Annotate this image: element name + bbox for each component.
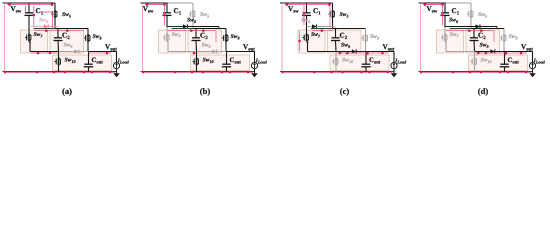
svg-text:Sw7: Sw7 (172, 32, 182, 39)
svg-text:Sw9: Sw9 (64, 43, 73, 50)
svg-text:Sw9: Sw9 (341, 43, 350, 50)
svg-text:ILoad: ILoad (533, 58, 546, 65)
svg-text:(c): (c) (340, 86, 350, 96)
svg-text:Sw10: Sw10 (65, 58, 76, 65)
svg-text:ILoad: ILoad (394, 58, 407, 65)
svg-text:Sw8: Sw8 (231, 34, 240, 41)
svg-text:Sw10: Sw10 (203, 58, 214, 65)
svg-text:(a): (a) (62, 86, 72, 96)
svg-text:Sw10: Sw10 (342, 58, 353, 65)
svg-text:Sw6: Sw6 (39, 18, 49, 25)
svg-text:(b): (b) (200, 86, 211, 96)
svg-text:Sw10: Sw10 (481, 58, 492, 65)
svg-text:Sw5: Sw5 (62, 12, 71, 19)
svg-text:Sw8: Sw8 (509, 34, 518, 41)
svg-text:Sw9: Sw9 (480, 43, 489, 50)
svg-text:Sw7: Sw7 (450, 32, 460, 39)
svg-text:Sw5: Sw5 (200, 12, 209, 19)
svg-text:Sw7: Sw7 (311, 32, 321, 39)
svg-text:Sw5: Sw5 (340, 12, 349, 19)
svg-text:ILoad: ILoad (255, 58, 268, 65)
svg-text:Sw6: Sw6 (187, 18, 197, 25)
svg-text:ILoad: ILoad (117, 58, 130, 65)
svg-text:Sw8: Sw8 (370, 34, 379, 41)
svg-text:Sw6: Sw6 (301, 18, 311, 25)
svg-text:Sw9: Sw9 (202, 43, 211, 50)
svg-text:Sw8: Sw8 (93, 34, 102, 41)
svg-text:Sw5: Sw5 (478, 12, 487, 19)
svg-text:Sw7: Sw7 (34, 32, 44, 39)
svg-text:(d): (d) (478, 86, 489, 96)
svg-text:Sw6: Sw6 (449, 18, 459, 25)
